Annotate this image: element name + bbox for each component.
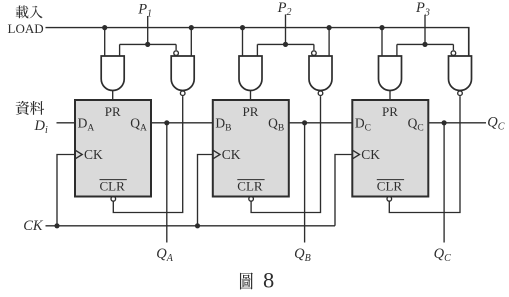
- wire GB1 output to PR pin: [250, 91, 252, 101]
- wire LOAD to AND GC1 left input: [381, 28, 383, 56]
- pin CK edge-trigger marker of FFC: [352, 150, 359, 159]
- wire QB output: [289, 122, 353, 124]
- wire GA2 output to CLR pin: [113, 96, 182, 212]
- svg-text:CK: CK: [361, 147, 380, 162]
- flip-flop FFB (D flip-flop B): [213, 100, 289, 197]
- wire P2 vertical: [285, 14, 287, 44]
- svg-text:P3: P3: [415, 0, 430, 18]
- node LOAD to GC1 junction: [379, 25, 384, 30]
- svg-text:QA: QA: [156, 246, 173, 264]
- wire LOAD bus: [46, 28, 469, 56]
- wire NAND GC2 inverted input drop: [452, 44, 454, 50]
- wire NAND GA2 inverted input drop: [175, 44, 177, 50]
- svg-text:PR: PR: [243, 104, 259, 119]
- bubble GA2 output inversion: [180, 91, 185, 96]
- wire P3 vertical: [424, 15, 426, 45]
- wire AND GC1 right input: [396, 44, 398, 56]
- svg-text:LOAD: LOAD: [8, 21, 44, 36]
- bubble FFB CLR active-low: [249, 197, 254, 202]
- svg-text:P1: P1: [137, 1, 152, 19]
- wire P3 distribution to gates: [397, 43, 454, 45]
- label 資料 (data, Chinese): [16, 101, 45, 115]
- svg-text:8: 8: [263, 268, 274, 293]
- node LOAD to GB2 junction: [327, 25, 332, 30]
- wire AND GA1 right input: [119, 44, 121, 56]
- node P2 junction: [283, 42, 288, 47]
- pin CK edge-trigger marker of FFA: [75, 150, 82, 159]
- svg-text:QC: QC: [434, 246, 451, 264]
- nand-gate GC2 (clear gate, stage C): [449, 56, 472, 91]
- wire CK riser to FFC: [335, 155, 352, 226]
- svg-text:CLR: CLR: [237, 179, 263, 194]
- svg-text:PR: PR: [105, 104, 121, 119]
- wire Di to FFA D input: [57, 122, 76, 124]
- node LOAD to GB1 junction: [240, 25, 245, 30]
- wire LOAD to NAND GA2 right input: [190, 28, 192, 56]
- wire LOAD to AND GB1 left input: [242, 28, 244, 56]
- svg-text:CLR: CLR: [377, 179, 403, 194]
- wire QA output: [151, 122, 213, 124]
- node QA junction: [164, 120, 169, 125]
- wire GA1 output to PR pin: [112, 91, 114, 101]
- wire CK bus: [46, 225, 336, 227]
- and-gate GC1 (preset gate, stage C): [379, 56, 402, 91]
- svg-text:CK: CK: [84, 147, 103, 162]
- bubble FFA CLR active-low: [111, 197, 116, 202]
- wire QC drop to label: [443, 123, 445, 243]
- wire P1 distribution to gates: [120, 43, 177, 45]
- wire GC1 output to PR pin: [389, 91, 391, 101]
- and-gate GB1 (preset gate, stage B): [239, 56, 262, 91]
- svg-text:CK: CK: [23, 218, 44, 234]
- wire QB drop to label: [304, 123, 306, 243]
- wire QC output: [428, 122, 486, 124]
- svg-text:Di: Di: [34, 118, 48, 136]
- bubble GA2 input inversion: [174, 51, 179, 56]
- wire GB2 output to CLR pin: [251, 96, 320, 212]
- wire LOAD to NAND GB2 right input: [328, 28, 330, 56]
- caption 圖 8 (Figure 8): [240, 268, 274, 293]
- svg-text:P2: P2: [277, 0, 292, 18]
- label 載入 (LOAD, Chinese): [16, 5, 43, 18]
- node LOAD to GA1 junction: [102, 25, 107, 30]
- svg-text:QC: QC: [487, 114, 504, 132]
- flip-flop FFC (D flip-flop C): [352, 100, 428, 197]
- wire GC2 output to CLR pin: [389, 96, 460, 212]
- pin CK edge-trigger marker of FFB: [213, 150, 220, 159]
- and-gate GA1 (preset gate, stage A): [101, 56, 124, 91]
- svg-text:CK: CK: [222, 147, 241, 162]
- bubble GC2 input inversion: [451, 51, 456, 56]
- wire QA drop to label: [166, 123, 168, 243]
- bubble GB2 input inversion: [312, 51, 317, 56]
- bubble GB2 output inversion: [318, 91, 323, 96]
- nand-gate GB2 (clear gate, stage B): [309, 56, 332, 91]
- node CK bus junction B: [195, 223, 200, 228]
- bubble FFC CLR active-low: [387, 197, 392, 202]
- node P3 junction: [422, 42, 427, 47]
- flip-flop FFA (D flip-flop A): [75, 100, 151, 197]
- bubble GC2 output inversion: [458, 91, 463, 96]
- nand-gate GA2 (clear gate, stage A): [171, 56, 194, 91]
- wire P1 vertical: [147, 16, 149, 44]
- svg-text:CLR: CLR: [100, 179, 126, 194]
- node LOAD to GA2 junction: [189, 25, 194, 30]
- wire LOAD to AND GA1 left input: [104, 28, 106, 56]
- node QC junction: [442, 120, 447, 125]
- wire CK riser to FFB: [198, 155, 213, 226]
- wire AND GB1 right input: [256, 44, 258, 56]
- svg-text:QB: QB: [294, 246, 311, 264]
- node QB junction: [302, 120, 307, 125]
- node P1 junction: [145, 42, 150, 47]
- node CK bus junction A: [54, 223, 59, 228]
- wire P2 distribution to gates: [257, 43, 314, 45]
- wire LOAD to NAND GC2 right input: [468, 28, 470, 56]
- wire CK riser to FFA: [57, 155, 75, 226]
- svg-text:PR: PR: [382, 104, 398, 119]
- wire NAND GB2 inverted input drop: [313, 44, 315, 50]
